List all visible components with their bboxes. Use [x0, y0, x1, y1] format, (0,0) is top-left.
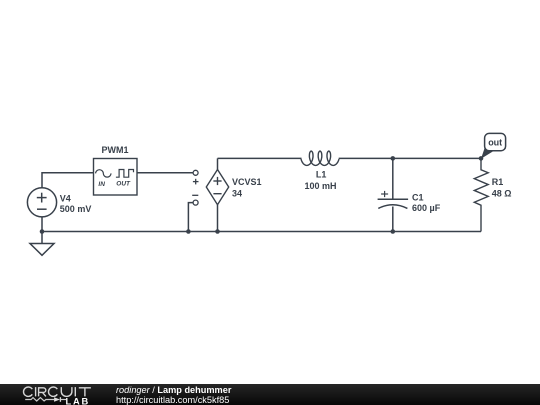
wire bottom rail: [42, 231, 481, 233]
terminal - (VCVS control): [192, 195, 198, 205]
footer credit text: [116, 385, 231, 405]
footer bar: [0, 384, 540, 405]
svg-text:500 mV: 500 mV: [60, 204, 92, 214]
capacitor C1: [378, 191, 409, 209]
terminal + (VCVS control): [193, 170, 199, 184]
svg-text:IN: IN: [98, 181, 105, 188]
circuitlab logo: [0, 384, 110, 405]
ground: [30, 232, 54, 256]
svg-text:V4: V4: [60, 193, 71, 203]
svg-text:VCVS1: VCVS1: [232, 177, 262, 187]
svg-text:R1: R1: [492, 177, 504, 187]
voltage source V4: [27, 188, 56, 217]
wire V4 top to PWM1 IN: [42, 173, 94, 188]
node flag out: [481, 133, 506, 158]
wire minus terminal to ground rail: [188, 203, 193, 232]
svg-text:PWM1: PWM1: [102, 145, 129, 155]
junction C1 bottom: [391, 229, 396, 234]
svg-text:34: 34: [232, 189, 242, 199]
wire PWM1 OUT to + terminal: [137, 172, 193, 174]
inductor L1: [301, 151, 339, 165]
svg-text:OUT: OUT: [116, 180, 131, 187]
svg-text:out: out: [488, 137, 502, 147]
svg-text:100 mH: 100 mH: [305, 181, 337, 191]
dependent source VCVS1: [206, 170, 228, 205]
svg-text:L1: L1: [316, 170, 327, 180]
wire C1 top lead: [392, 158, 394, 199]
PWM1 block: [94, 159, 138, 196]
svg-text:LAB: LAB: [66, 396, 91, 405]
junction minus terminal / rail: [186, 229, 191, 234]
svg-text:600 µF: 600 µF: [412, 203, 441, 213]
resistor R1: [474, 158, 488, 231]
junction at V4 / ground: [40, 229, 45, 234]
wire VCVS1 bottom: [217, 205, 219, 232]
wire V4 bottom: [41, 217, 43, 232]
svg-text:48 Ω: 48 Ω: [492, 189, 512, 199]
wire C1 bottom lead: [392, 207, 394, 232]
junction out node: [479, 156, 484, 161]
wire top rail left of L1: [218, 157, 302, 159]
junction VCVS1 / rail: [215, 229, 220, 234]
junction C1 top: [391, 156, 396, 161]
wire top rail right of L1: [339, 157, 481, 159]
wire VCVS1 top to top rail: [217, 158, 219, 169]
svg-text:C1: C1: [412, 192, 424, 202]
